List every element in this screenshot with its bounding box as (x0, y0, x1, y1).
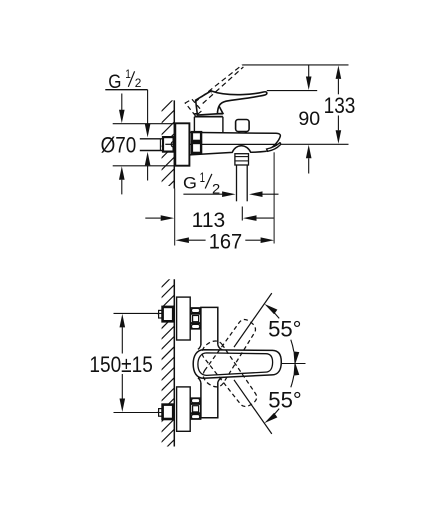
extension line lever top (267, 90, 317, 92)
hidden union nuts behind body (192, 132, 201, 141)
body/spout outline (189, 132, 280, 151)
svg-text:2: 2 (212, 181, 220, 197)
extension line spout outlet plane (280, 143, 348, 145)
underline of G 1/2 (105, 89, 147, 91)
svg-text:133: 133 (324, 93, 356, 118)
outlet pipe for shower hose (236, 165, 238, 201)
diverter knob (236, 120, 250, 132)
inlet pipe G1/2 (side view) (140, 138, 163, 140)
Ø70 extension line bottom (113, 165, 176, 167)
lever grip (side) (196, 91, 223, 115)
Ø70 arrow bottom (119, 166, 125, 180)
mounting plate lower (177, 387, 191, 431)
right arrow at outlet pipe (249, 191, 263, 197)
leader + arrow from G1/2 to pipe top (147, 90, 149, 124)
lever handle inner line (198, 353, 273, 376)
svg-text:1: 1 (125, 68, 131, 81)
lever swung +55deg (dashed) (200, 316, 261, 390)
extension line raised-lever top (242, 64, 348, 66)
Ø70 arrow top (121, 94, 123, 111)
body underside + outlet dome (189, 146, 266, 155)
dimension 167 (175, 237, 189, 243)
55deg reference line upper (234, 293, 272, 347)
union nut upper (plan) (191, 308, 201, 329)
dimension 113 (145, 217, 161, 219)
dimension 150±15 (120, 314, 126, 328)
Ø70 extension line top (113, 123, 176, 125)
svg-text:55°: 55° (268, 316, 301, 341)
body midline (189, 143, 279, 145)
raised grip (dashed) (185, 99, 202, 116)
lever swung -55deg (dashed) (199, 337, 260, 411)
cartridge band lines (194, 113, 223, 115)
in-wall union lower (157, 411, 159, 413)
svg-text:Ø70: Ø70 (101, 133, 137, 158)
valve body column (plan) (201, 307, 218, 345)
neck flares joining column to lever capsule (198, 345, 223, 383)
wire wall-extension line down to dimensions (174, 189, 176, 246)
outlet thread block (235, 154, 249, 165)
arc arrows upper dim (294, 351, 300, 365)
svg-text:55°: 55° (268, 388, 301, 413)
dimension 133 (336, 65, 342, 79)
raised lever (dashed) (195, 65, 243, 102)
lever handle outer (plan) (193, 350, 281, 379)
escutcheon flange (side view) (175, 123, 189, 165)
svg-text:150±15: 150±15 (89, 352, 152, 377)
167 extension line (spout tip) (273, 152, 275, 243)
dimension 90 (308, 65, 310, 77)
extension line at outlet centerline (241, 207, 243, 221)
faucet body block (side) (194, 117, 223, 133)
centerline 0-deg reference (282, 363, 306, 365)
svg-text:167: 167 (209, 229, 243, 253)
mounting plate upper (177, 297, 191, 340)
svg-text:90: 90 (298, 108, 320, 130)
arc arrows lower dim (294, 361, 300, 375)
svg-text:G: G (183, 173, 197, 192)
lever handle (side) (211, 91, 267, 114)
union hex nut (side view) (163, 137, 174, 152)
in-wall union upper (157, 313, 159, 315)
union nut lower (plan) (191, 398, 201, 419)
svg-text:1: 1 (200, 170, 205, 186)
55deg reference line lower (234, 380, 272, 434)
arrow G1/2 bottom (145, 152, 151, 166)
svg-text:113: 113 (192, 209, 226, 232)
leader/underline with arrow to outlet pipe (183, 193, 222, 195)
svg-text:2: 2 (135, 77, 142, 90)
spout lip crescent (267, 143, 281, 152)
dimension 150±15 extension lines (114, 312, 164, 314)
